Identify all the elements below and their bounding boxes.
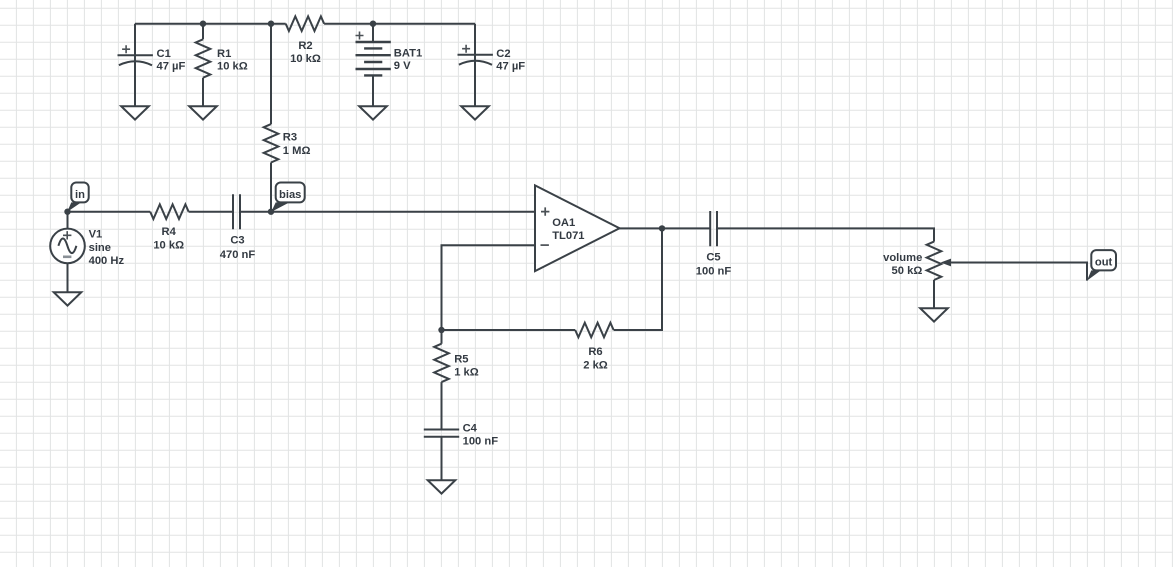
svg-text:V1: V1 [89,229,103,241]
svg-text:BAT1: BAT1 [394,48,422,60]
svg-text:100 nF: 100 nF [463,436,499,448]
svg-text:50 kΩ: 50 kΩ [892,265,923,277]
svg-text:400 Hz: 400 Hz [89,255,125,267]
svg-text:10 kΩ: 10 kΩ [153,239,184,251]
svg-text:2 kΩ: 2 kΩ [583,360,608,372]
svg-text:R1: R1 [217,48,231,60]
svg-text:47 µF: 47 µF [496,60,525,72]
svg-text:1 MΩ: 1 MΩ [283,145,311,157]
svg-text:100 nF: 100 nF [696,266,732,278]
svg-text:TL071: TL071 [552,230,584,242]
svg-text:R4: R4 [162,226,177,238]
svg-text:OA1: OA1 [552,217,575,229]
svg-text:volume: volume [883,252,922,264]
svg-text:in: in [75,189,85,201]
svg-text:1 kΩ: 1 kΩ [454,367,479,379]
svg-text:bias: bias [279,189,301,201]
svg-text:10 kΩ: 10 kΩ [290,53,321,65]
svg-text:470 nF: 470 nF [220,249,256,261]
svg-text:sine: sine [89,242,111,254]
svg-text:C5: C5 [706,252,720,264]
svg-text:C3: C3 [230,235,244,247]
svg-text:C2: C2 [496,48,510,60]
svg-text:R6: R6 [588,346,602,358]
svg-text:9 V: 9 V [394,60,411,72]
svg-text:10 kΩ: 10 kΩ [217,60,248,72]
svg-text:47 µF: 47 µF [157,60,186,72]
svg-text:out: out [1095,257,1113,269]
svg-text:R3: R3 [283,132,297,144]
svg-text:R2: R2 [298,40,312,52]
svg-text:R5: R5 [454,353,468,365]
svg-text:C1: C1 [157,48,171,60]
svg-text:C4: C4 [463,422,478,434]
